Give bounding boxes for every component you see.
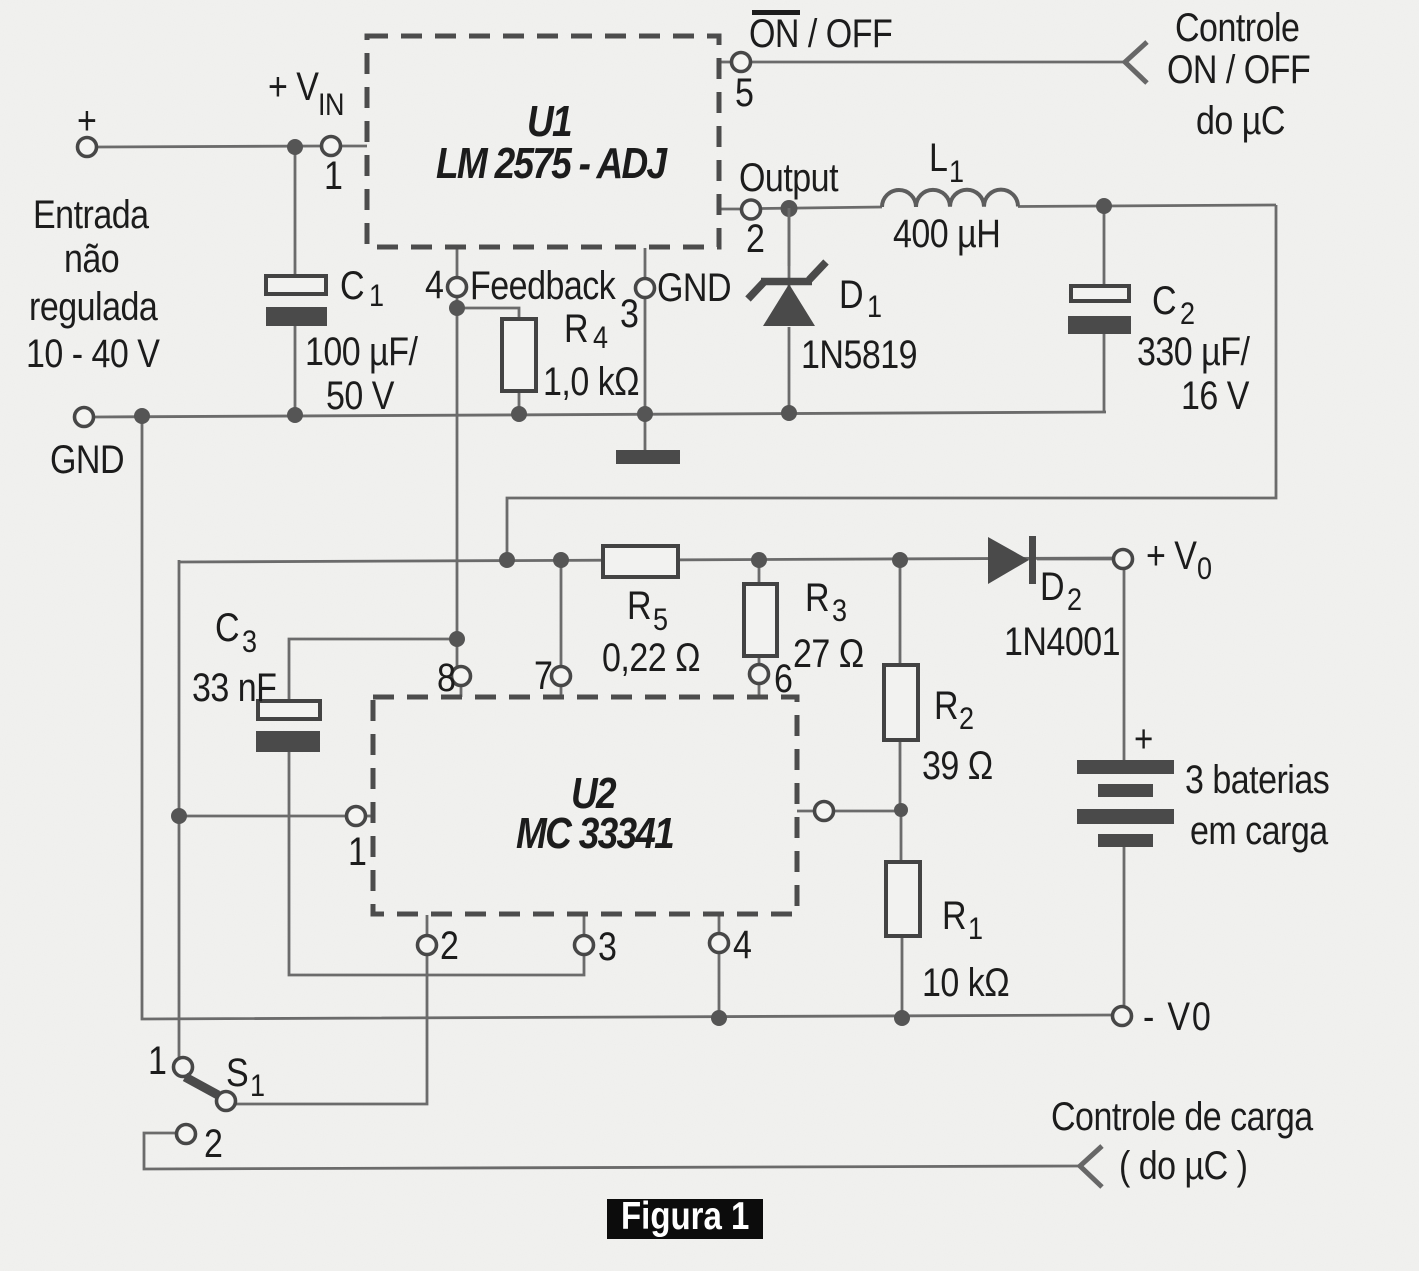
wire U2 pin5 to R2/R1 node bbox=[833, 810, 901, 813]
svg-text:50 V: 50 V bbox=[326, 372, 395, 417]
svg-text:Controle de carga: Controle de carga bbox=[1051, 1093, 1313, 1138]
U2 dashed box bbox=[373, 697, 797, 914]
pin 1 of U1 (Vin) bbox=[322, 137, 341, 156]
wire bottom control line bbox=[144, 1133, 1080, 1169]
svg-text:3: 3 bbox=[832, 593, 847, 629]
svg-text:16 V: 16 V bbox=[1181, 372, 1250, 417]
svg-text:39 Ω: 39 Ω bbox=[922, 742, 993, 787]
pin tick U2 pin8 bbox=[460, 685, 463, 697]
svg-text:ON / OFF: ON / OFF bbox=[1167, 46, 1310, 91]
wire GND row bbox=[94, 412, 1106, 417]
pin 6 of U2 bbox=[750, 665, 769, 684]
svg-text:4: 4 bbox=[593, 320, 608, 356]
svg-text:R: R bbox=[805, 574, 829, 619]
Figura 1 box bbox=[607, 1193, 763, 1239]
svg-text:regulada: regulada bbox=[29, 283, 158, 328]
svg-text:1: 1 bbox=[369, 278, 384, 314]
switch S1 throw contact bbox=[217, 1092, 236, 1111]
pin 4 of U1 (Feedback) bbox=[448, 278, 467, 297]
pin tick U2 pin3 bbox=[583, 915, 586, 936]
junction main row / R2 top bbox=[892, 552, 908, 568]
wire right rail to main row bbox=[507, 205, 1276, 560]
resistor R1 bbox=[886, 862, 920, 936]
svg-text:ON / OFF: ON / OFF bbox=[749, 10, 892, 55]
wire main output row bbox=[178, 558, 1114, 562]
pin tick U1 pin4 bbox=[456, 248, 459, 278]
wire output row to L1 bbox=[760, 205, 1276, 209]
svg-text:não: não bbox=[64, 235, 119, 280]
wire U2 pin4 bbox=[718, 952, 721, 1018]
pin tick U2 pin4 bbox=[718, 915, 721, 934]
svg-text:D: D bbox=[839, 271, 863, 316]
svg-text:( do µC ): ( do µC ) bbox=[1119, 1142, 1247, 1187]
pin tick U1 pin2 bbox=[720, 208, 742, 211]
svg-text:5: 5 bbox=[653, 602, 668, 638]
wire U2 pin7 bbox=[560, 560, 563, 667]
svg-text:2: 2 bbox=[959, 701, 974, 737]
pin 4 of U2 bbox=[710, 934, 729, 953]
svg-text:10 kΩ: 10 kΩ bbox=[922, 959, 1009, 1004]
wire D2 to +V0 bbox=[1037, 558, 1114, 561]
pin 2 of U1 (Output) bbox=[742, 200, 761, 219]
junction R2 bottom / R1 top / U2 pin5 bbox=[894, 803, 908, 817]
pin 3 of U2 bbox=[575, 936, 594, 955]
svg-text:IN: IN bbox=[318, 87, 344, 123]
wire C2 leads bbox=[1103, 206, 1106, 413]
svg-text:C: C bbox=[340, 262, 364, 307]
terminal S1 contact 2 bbox=[177, 1125, 196, 1144]
svg-text:1: 1 bbox=[148, 1037, 166, 1082]
junction -V0 row / U2 pin4 bbox=[711, 1010, 727, 1026]
terminal + input bbox=[78, 138, 97, 157]
pin tick U2 pin6 bbox=[758, 683, 761, 697]
pin 5 of U1 (ON/OFF) bbox=[732, 53, 751, 72]
switch S1 pole contact 1 bbox=[174, 1058, 193, 1077]
svg-text:33 nF: 33 nF bbox=[192, 664, 276, 709]
wire R1 leads bbox=[901, 810, 902, 1018]
wire D1 leads bbox=[788, 206, 791, 413]
svg-text:1: 1 bbox=[968, 911, 983, 947]
capacitor C1 bbox=[266, 276, 327, 326]
svg-text:Entrada: Entrada bbox=[33, 191, 149, 236]
svg-text:MC 33341: MC 33341 bbox=[516, 808, 673, 858]
junction left branch / U2 pin1 wire bbox=[171, 808, 187, 824]
switch S1 lever bbox=[185, 1077, 218, 1095]
wire C3 bottom to U2 pin3 bbox=[289, 752, 584, 975]
svg-text:2: 2 bbox=[204, 1120, 222, 1165]
ON overline bbox=[752, 10, 800, 15]
svg-text:27 Ω: 27 Ω bbox=[793, 630, 864, 675]
junction main row / R3 top bbox=[751, 552, 767, 568]
diode D2 (1N4001) bbox=[988, 536, 1036, 584]
svg-text:L: L bbox=[929, 134, 947, 179]
svg-text:R: R bbox=[564, 305, 588, 350]
svg-text:2: 2 bbox=[746, 215, 764, 260]
svg-text:- V0: - V0 bbox=[1143, 993, 1213, 1038]
resistor R4 bbox=[502, 319, 536, 391]
svg-text:+ V: + V bbox=[268, 63, 319, 108]
svg-text:1N4001: 1N4001 bbox=[1004, 618, 1120, 663]
svg-text:3: 3 bbox=[620, 290, 638, 335]
pin 7 of U2 bbox=[552, 667, 571, 686]
svg-text:Controle: Controle bbox=[1175, 4, 1299, 49]
connector chevron carga bbox=[1080, 1146, 1102, 1187]
wire C3 top to feedback bbox=[289, 639, 457, 701]
svg-text:C: C bbox=[1152, 277, 1176, 322]
pin 1 of U2 bbox=[347, 807, 366, 826]
svg-text:3: 3 bbox=[242, 624, 257, 660]
wire battery leads bbox=[1123, 568, 1126, 1007]
pin 8 of U2 bbox=[452, 667, 471, 686]
svg-text:10 - 40 V: 10 - 40 V bbox=[26, 330, 160, 375]
svg-text:2: 2 bbox=[1180, 296, 1195, 332]
svg-text:6: 6 bbox=[774, 655, 792, 700]
svg-text:+: + bbox=[1134, 716, 1153, 760]
open circle terminals / pins bbox=[75, 53, 1133, 1144]
svg-text:1,0 kΩ: 1,0 kΩ bbox=[543, 358, 639, 403]
svg-text:1N5819: 1N5819 bbox=[801, 331, 917, 376]
resistor R2 bbox=[884, 665, 918, 740]
wire input + to pin1 bbox=[97, 146, 322, 147]
wire C1 leads bbox=[294, 147, 297, 415]
wire U2 pin2 to S1 throw bbox=[234, 954, 427, 1104]
resistor R3 bbox=[744, 584, 777, 656]
terminal +V0 bbox=[1114, 550, 1133, 569]
junction L1 out / C2 top bbox=[1096, 198, 1112, 214]
svg-text:Figura 1: Figura 1 bbox=[621, 1193, 749, 1237]
svg-text:4: 4 bbox=[425, 261, 443, 306]
wire R4 jog and leads bbox=[457, 308, 519, 414]
svg-text:do µC: do µC bbox=[1196, 97, 1285, 142]
junction Vin node at C1 top bbox=[287, 139, 303, 155]
pin tick U1 pin5 bbox=[720, 61, 732, 64]
svg-text:7: 7 bbox=[534, 652, 552, 697]
terminal GND input bbox=[75, 408, 94, 427]
junction main row / U2 pin7 bbox=[553, 552, 569, 568]
junction output node / D1 cathode bbox=[781, 200, 798, 217]
svg-text:3 baterias: 3 baterias bbox=[1185, 756, 1329, 801]
svg-text:Feedback: Feedback bbox=[470, 262, 616, 307]
pin 2 of U2 bbox=[418, 936, 437, 955]
pin tick U2 pin2 bbox=[426, 915, 429, 936]
junction GND row / R4 bottom bbox=[511, 406, 527, 422]
svg-text:2: 2 bbox=[440, 922, 458, 967]
svg-text:C: C bbox=[215, 604, 239, 649]
svg-text:4: 4 bbox=[733, 921, 751, 966]
pin tick U2 pin1 bbox=[365, 815, 373, 818]
svg-text:0,22 Ω: 0,22 Ω bbox=[602, 634, 700, 679]
svg-text:330 µF/: 330 µF/ bbox=[1137, 328, 1251, 373]
junction GND row / left feed bbox=[134, 408, 150, 424]
svg-text:+: + bbox=[77, 97, 96, 142]
svg-text:GND: GND bbox=[50, 436, 124, 481]
svg-text:0: 0 bbox=[1197, 551, 1212, 587]
svg-text:400 µH: 400 µH bbox=[893, 210, 1000, 255]
capacitor C2 bbox=[1068, 286, 1131, 334]
wire feedback vertical pin4 to pin8 bbox=[456, 296, 459, 667]
svg-text:S: S bbox=[226, 1049, 248, 1094]
junction GND row / D1 anode bbox=[781, 405, 797, 421]
svg-text:8: 8 bbox=[437, 654, 455, 699]
wire left vertical to S1 bbox=[178, 560, 181, 1058]
terminal -V0 bbox=[1113, 1007, 1132, 1026]
wire R3 leads bbox=[758, 560, 761, 665]
pin 5 of U2 bbox=[815, 802, 834, 821]
connector chevron ON/OFF bbox=[1125, 42, 1147, 83]
svg-text:1: 1 bbox=[949, 154, 964, 190]
svg-text:R: R bbox=[942, 892, 966, 937]
diode D1 (1N5819 schottky) bbox=[748, 208, 826, 326]
U1 dashed box bbox=[367, 36, 719, 247]
junction -V0 row / R1 bottom bbox=[894, 1010, 910, 1026]
resistor R5 bbox=[603, 546, 678, 577]
capacitor C3 bbox=[256, 701, 320, 752]
junction feedback node / R4 top bbox=[449, 300, 465, 316]
junction feedback line / C3 top wire bbox=[449, 631, 465, 647]
inductor L1 bbox=[882, 190, 1018, 207]
svg-text:1: 1 bbox=[867, 289, 882, 325]
svg-text:1: 1 bbox=[348, 828, 366, 873]
junction GND row / C1 bottom bbox=[287, 407, 303, 423]
ground symbol bbox=[616, 450, 680, 464]
svg-text:GND: GND bbox=[657, 264, 731, 309]
svg-text:2: 2 bbox=[1067, 582, 1082, 618]
junction main row / right rail bbox=[499, 552, 515, 568]
pin tick U2 pin5 bbox=[797, 810, 815, 813]
junction GND row / U1 pin3 lead bbox=[637, 406, 653, 422]
svg-text:D: D bbox=[1040, 563, 1064, 608]
wire pin5 ON/OFF bbox=[750, 61, 1124, 64]
svg-text:R: R bbox=[934, 682, 958, 727]
wire left down-feed to -V0 row bbox=[142, 417, 1113, 1019]
wire R2 leads bbox=[899, 560, 902, 810]
svg-text:1: 1 bbox=[250, 1068, 265, 1104]
svg-text:R: R bbox=[627, 582, 651, 627]
wire U2 pin1 bbox=[179, 815, 347, 818]
svg-text:Output: Output bbox=[739, 154, 839, 199]
svg-text:LM 2575 - ADJ: LM 2575 - ADJ bbox=[436, 138, 668, 188]
pin tick U2 pin7 bbox=[560, 685, 563, 697]
battery 3 cells bbox=[1077, 760, 1174, 847]
svg-text:+ V: + V bbox=[1146, 532, 1197, 577]
wire pin3 gnd lead bbox=[644, 297, 647, 450]
svg-text:1: 1 bbox=[324, 152, 342, 197]
svg-text:em carga: em carga bbox=[1190, 807, 1328, 852]
svg-text:100 µF/: 100 µF/ bbox=[305, 328, 419, 373]
svg-text:3: 3 bbox=[598, 923, 616, 968]
svg-text:5: 5 bbox=[735, 69, 753, 114]
pin tick U1 pin1 bbox=[340, 145, 367, 148]
pin 3 of U1 (GND) bbox=[636, 279, 655, 298]
pin tick U1 pin3 bbox=[644, 248, 647, 279]
